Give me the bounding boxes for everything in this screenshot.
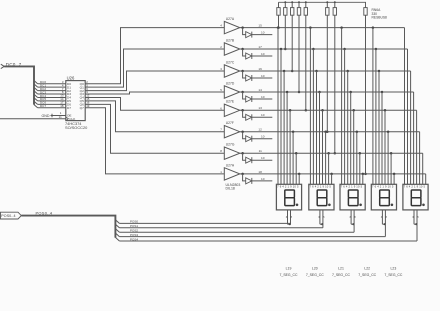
column display4 seg8 — [393, 173, 396, 185]
svg-text:8: 8 — [354, 216, 356, 219]
svg-text:POS0..4: POS0..4 — [36, 211, 53, 216]
svg-text:10: 10 — [261, 135, 265, 139]
svg-text:POS4: POS4 — [130, 237, 138, 241]
resistor RN6 4 330 — [297, 1, 300, 93]
column display2 seg7 — [327, 152, 330, 184]
svg-text:U27D: U27D — [226, 81, 235, 85]
svg-text:4: 4 — [220, 24, 222, 28]
column display2 seg3 — [315, 70, 318, 185]
GND — [42, 111, 66, 118]
wire U26 Q1 pin 5 to U27B input — [85, 45, 224, 87]
column display4 seg5 — [384, 109, 387, 184]
column display1 seg3 — [283, 70, 286, 185]
7-segment display L23 — [403, 184, 428, 210]
wire U27C output pin 16 — [240, 67, 268, 71]
svg-text:8: 8 — [220, 149, 222, 153]
svg-text:7_SEG_CC: 7_SEG_CC — [280, 273, 298, 277]
wire U26 Q4 pin 12 to U27E input — [85, 94, 224, 111]
svg-text:RESBUS8: RESBUS8 — [372, 16, 388, 20]
wire U27A output pin 15 — [240, 24, 268, 28]
common cathode pins display L21 — [349, 210, 356, 232]
wire U26 Q5 pin 15 to U27F input — [85, 97, 224, 132]
svg-text:L23: L23 — [391, 267, 397, 271]
segment row 5 wire — [268, 110, 417, 184]
svg-text:10: 10 — [261, 156, 265, 160]
svg-text:8: 8 — [386, 216, 388, 219]
segment row 3 wire — [268, 71, 411, 184]
buffer U27A — [224, 17, 240, 34]
svg-text:8: 8 — [417, 216, 419, 219]
column display1 seg6 — [292, 130, 295, 184]
svg-text:7 6 4 2 1 9 10 5: 7 6 4 2 1 9 10 5 — [341, 185, 363, 189]
column display3 seg6 — [356, 130, 359, 184]
svg-text:5: 5 — [220, 88, 222, 92]
diode D7 freewheel — [241, 152, 272, 163]
column display4 seg2 — [375, 48, 378, 185]
column display3 seg7 — [359, 152, 362, 184]
segment row 1 wire — [268, 28, 405, 185]
svg-text:SO/SOCC20: SO/SOCC20 — [65, 125, 88, 130]
label L23 7_SEG_CC — [384, 267, 402, 277]
column display2 seg5 — [321, 109, 324, 184]
column display2 seg8 — [330, 173, 333, 185]
svg-text:DIL18: DIL18 — [226, 186, 235, 190]
svg-text:7_SEG_CC: 7_SEG_CC — [358, 273, 376, 277]
column display4 seg1 — [372, 26, 375, 184]
off-page connector POS0..4 — [1, 212, 22, 219]
column display1 seg8 — [298, 173, 301, 185]
wire U26 Q6 pin 16 to U27G input — [85, 101, 224, 154]
diode D8 freewheel — [241, 173, 272, 184]
7-segment display L22 — [371, 184, 396, 210]
svg-text:U27E: U27E — [226, 100, 235, 104]
segment row 7 wire — [268, 153, 423, 184]
svg-text:POS0..4: POS0..4 — [1, 214, 15, 218]
svg-text:10: 10 — [261, 74, 265, 78]
wire U26 Q7 pin 19 to U27H input — [85, 104, 224, 174]
power rail — [279, 2, 366, 7]
svg-text:12: 12 — [258, 128, 262, 132]
wire U27G output pin 11 — [240, 149, 268, 153]
column display2 seg1 — [309, 26, 312, 184]
off-page connector DC0..7 — [1, 62, 22, 69]
svg-text:18: 18 — [60, 104, 64, 108]
column display3 seg2 — [343, 48, 346, 185]
column display1 seg1 — [277, 26, 280, 184]
column display1 seg5 — [289, 109, 292, 184]
wire U27D output pin 14 — [240, 88, 268, 92]
common cathode pins display L20 — [318, 210, 325, 228]
svg-text:POS2: POS2 — [130, 229, 138, 233]
buffer U27E — [224, 100, 240, 117]
wire U27E output pin 13 — [240, 106, 268, 110]
wire U26 Q2 pin 6 to U27C input — [85, 67, 224, 91]
svg-text:U27H: U27H — [226, 163, 235, 167]
svg-text:U27G: U27G — [226, 143, 235, 147]
diode D3 freewheel — [241, 70, 272, 81]
bus POS0..4 — [21, 211, 115, 238]
buffer U27F — [224, 121, 240, 138]
segment row 4 wire — [268, 92, 414, 184]
svg-text:D7: D7 — [67, 106, 71, 110]
wire U26 Q0 pin 2 to U27A input — [85, 24, 224, 84]
svg-text:13: 13 — [258, 106, 262, 110]
svg-text:10: 10 — [261, 113, 265, 117]
column display1 seg7 — [295, 152, 298, 184]
label RN6A 330 RESBUS8 — [372, 8, 388, 20]
column display1 seg2 — [280, 48, 283, 185]
svg-text:10: 10 — [261, 52, 265, 56]
svg-text:7_SEG_CC: 7_SEG_CC — [384, 273, 402, 277]
7-segment display L19 — [276, 184, 301, 210]
wire CLK — [0, 115, 66, 119]
common cathode pins display L19 — [286, 210, 293, 225]
svg-text:3: 3 — [220, 67, 222, 71]
svg-text:U27B: U27B — [226, 38, 235, 42]
bus entry + wire DC3 to U26 pin 8 — [34, 90, 66, 94]
segment row 8 wire — [268, 174, 426, 184]
buffer U27B — [224, 38, 240, 55]
svg-text:POS3: POS3 — [130, 233, 138, 237]
svg-text:8: 8 — [323, 216, 325, 219]
svg-text:7: 7 — [220, 128, 222, 132]
segment row 6 wire — [268, 132, 420, 185]
bus DC0..7 — [4, 66, 34, 104]
svg-text:6: 6 — [220, 106, 222, 110]
column display2 seg4 — [318, 91, 321, 185]
column display3 seg8 — [362, 173, 365, 185]
bus entry + wire DC1 to U26 pin 4 — [34, 83, 66, 87]
wire U27B output pin 17 — [240, 45, 268, 49]
bus entry + wire DC4 to U26 pin 13 — [34, 94, 66, 98]
label L21 7_SEG_CC — [332, 267, 350, 277]
bus entry + wire DC6 to U26 pin 17 — [34, 101, 66, 105]
svg-text:7_SEG_CC: 7_SEG_CC — [332, 273, 350, 277]
bus entry + wire DC2 to U26 pin 7 — [34, 87, 66, 91]
svg-text:17: 17 — [258, 45, 262, 49]
svg-text:U26: U26 — [67, 75, 75, 80]
svg-text:U27A: U27A — [226, 17, 235, 21]
column display4 seg3 — [378, 70, 381, 185]
svg-text:16: 16 — [258, 67, 262, 71]
column display3 seg4 — [349, 91, 352, 185]
svg-text:7_SEG_CC: 7_SEG_CC — [306, 273, 324, 277]
bus entry + wire POS1 — [115, 224, 323, 228]
column display3 seg5 — [352, 109, 355, 184]
svg-text:L20: L20 — [312, 267, 318, 271]
common cathode pins display L22 — [381, 210, 388, 237]
buffer U27H — [224, 163, 240, 180]
bus entry + wire POS3 — [115, 233, 385, 237]
svg-text:GND: GND — [42, 114, 50, 118]
svg-text:L22: L22 — [364, 267, 370, 271]
bus entry + wire POS0 — [115, 220, 290, 224]
resistor RN6 6 330 — [326, 1, 329, 133]
svg-text:14: 14 — [258, 88, 262, 92]
resistor RN6 2 330 — [284, 1, 287, 50]
7-segment display L21 — [340, 184, 365, 210]
svg-text:7 6 4 2 1 9 10 5: 7 6 4 2 1 9 10 5 — [277, 185, 299, 189]
diode D6 freewheel — [241, 130, 272, 141]
diode D4 freewheel — [241, 91, 272, 102]
column display3 seg1 — [340, 26, 343, 184]
svg-text:POS0: POS0 — [130, 220, 138, 224]
svg-text:18: 18 — [258, 170, 262, 174]
label ULN2803 — [226, 183, 241, 190]
svg-text:11: 11 — [259, 149, 262, 153]
segment row 2 wire — [268, 49, 408, 184]
svg-text:2: 2 — [220, 45, 222, 49]
column display2 seg2 — [312, 48, 315, 185]
buffer U27D — [224, 81, 240, 98]
svg-text:7 6 4 2 1 9 10 5: 7 6 4 2 1 9 10 5 — [404, 185, 426, 189]
label L19 7_SEG_CC — [280, 267, 298, 277]
svg-text:7 6 4 2 1 9 10 5: 7 6 4 2 1 9 10 5 — [310, 185, 332, 189]
wire U27H output pin 18 — [240, 170, 268, 174]
svg-text:10: 10 — [261, 95, 265, 99]
svg-text:15: 15 — [258, 24, 262, 28]
svg-text:U27C: U27C — [226, 60, 235, 64]
label L20 7_SEG_CC — [306, 267, 324, 277]
diode D1 freewheel — [241, 26, 272, 37]
svg-text:1: 1 — [220, 170, 222, 174]
svg-text:8: 8 — [291, 216, 293, 219]
7-segment display L20 — [309, 184, 334, 210]
resistor RN6 7 330 — [333, 1, 336, 154]
bus entry + wire POS2 — [115, 229, 354, 233]
svg-text:7 6 4 2 1 9 10 5: 7 6 4 2 1 9 10 5 — [372, 185, 394, 189]
IC U26 74HC374 — [65, 75, 88, 130]
label L22 7_SEG_CC — [358, 267, 376, 277]
resistor RN6 1 330 — [277, 2, 280, 29]
svg-text:10: 10 — [261, 31, 265, 35]
resistor RN6 3 330 — [291, 1, 294, 72]
diode D2 freewheel — [241, 48, 272, 59]
bus entry + wire DC7 to U26 pin 18 — [34, 104, 66, 108]
svg-text:L21: L21 — [338, 267, 344, 271]
column display1 seg4 — [286, 91, 289, 185]
svg-text:L19: L19 — [286, 267, 292, 271]
wire U26 Q3 pin 9 to U27D input — [85, 88, 224, 94]
wire U27F output pin 12 — [240, 128, 268, 132]
svg-text:10: 10 — [261, 177, 265, 181]
svg-text:POS1: POS1 — [130, 224, 138, 228]
column display4 seg6 — [387, 130, 390, 184]
bus entry + wire DC5 to U26 pin 14 — [34, 97, 66, 101]
resistor RN6 8 330 — [364, 8, 367, 176]
column display3 seg3 — [346, 70, 349, 185]
resistor RN6 5 330 — [304, 1, 307, 111]
common cathode pins display L23 — [412, 210, 419, 241]
svg-text:DC7: DC7 — [40, 104, 46, 108]
bus entry + wire POS4 — [115, 237, 417, 241]
buffer U27G — [224, 143, 240, 160]
bus entry + wire DC0 to U26 pin 3 — [34, 80, 66, 84]
svg-text:U27F: U27F — [226, 121, 234, 125]
buffer U27C — [224, 60, 240, 77]
column display4 seg4 — [381, 91, 384, 185]
column display4 seg7 — [390, 152, 393, 184]
column display2 seg6 — [324, 130, 327, 184]
svg-text:11: 11 — [59, 115, 62, 119]
svg-text:Q7: Q7 — [80, 106, 84, 110]
diode D5 freewheel — [241, 109, 272, 120]
